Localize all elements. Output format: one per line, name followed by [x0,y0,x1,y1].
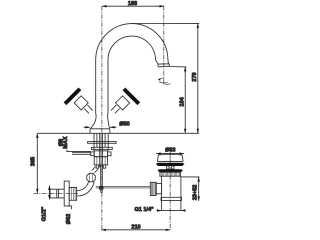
label D62 leader [67,206,72,209]
nipple right [103,165,105,168]
svg-text:23+52: 23+52 [192,185,198,200]
svg-text:279: 279 [192,72,198,81]
max thickness leader [67,150,91,152]
svg-text:365: 365 [31,157,37,166]
dimension 184 [184,67,186,133]
leader G1 1/4 [157,209,162,211]
dimension D50 arrows [84,126,90,128]
centerline spout outlet [163,6,165,84]
base flange [90,129,110,134]
dimension 279 [197,23,199,133]
elbow curve lower [77,182,94,196]
drain stem left [166,166,169,169]
faucet column waist and flare left [90,113,96,129]
drain side knurled nut [150,182,156,195]
drain stem right [171,166,174,169]
nipple left [96,165,98,168]
right arrow pipe bottom [181,209,185,211]
wall nut [69,187,76,200]
svg-text:210: 210 [131,224,140,230]
svg-text:Ø50: Ø50 [119,122,129,128]
drain body walls [162,176,181,210]
handle left lever [65,89,80,104]
drain dimension D63 [156,153,184,155]
drain cap [157,155,183,162]
valve block [94,157,107,165]
wall flange [64,181,69,206]
centerline wall pipe [34,193,79,195]
handle right neck [111,105,120,113]
svg-text:G1 1/4": G1 1/4" [135,207,155,213]
drain seal band 1 [156,163,185,166]
dimension 210 [101,229,170,231]
extension knurl to 23+52 [181,176,199,178]
svg-text:188: 188 [128,1,137,7]
rod tip [101,191,103,194]
horizontal actuating rod [96,186,151,188]
svg-text:184: 184 [180,96,186,106]
drain coupling band [161,197,182,200]
washer upper [88,142,117,144]
dimension 23+52 [198,177,200,201]
pull rod [101,165,103,192]
max deck plate [72,152,91,154]
G1/2 dimension arrows [48,185,50,199]
spout outer profile [96,24,169,113]
handle right stem [116,96,130,110]
handle right lever [124,89,139,104]
drain knurled collar [160,172,181,176]
handle left neck [84,105,93,113]
supply tube dark [99,133,100,167]
wall pipe [50,189,64,198]
washer lower [91,147,112,149]
svg-text:Ø62: Ø62 [66,214,72,224]
wing left [91,152,94,156]
deck line [37,132,199,134]
centerline faucet body [101,6,103,230]
svg-text:G1/2": G1/2" [41,206,47,221]
aerator [158,64,170,67]
side nut collar [156,183,161,193]
handle left stem [74,96,88,110]
dimension 188 [102,5,164,7]
wing right [108,152,111,156]
shank outer walls [94,133,108,151]
spout inner profile [108,36,158,113]
svg-text:Ø63: Ø63 [165,147,175,153]
drain seal band 2 [157,169,183,172]
shank inner walls [97,133,105,147]
elbow curve upper [77,181,89,190]
dimension 365 [36,133,38,193]
drain pipe bottom [162,209,181,211]
centerline drain [169,151,171,230]
ball knurled nut [87,173,96,182]
extension spout top to 279 [132,22,200,24]
extension aerator to 184 [169,66,186,68]
faucet column waist and flare right [108,113,110,129]
rod clevis [99,186,104,190]
drain cap seam [169,155,171,161]
water drip symbol [159,77,164,80]
wing nut body [94,151,107,157]
elbow tube 45deg [92,167,98,173]
svg-text:MAX: MAX [63,136,69,149]
